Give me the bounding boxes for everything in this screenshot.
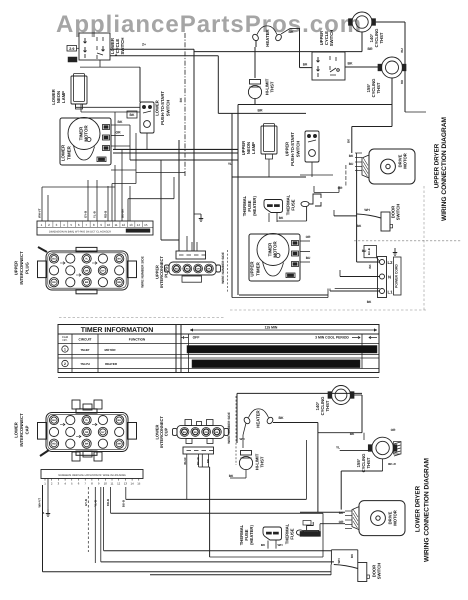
svg-text:DOOR: DOOR xyxy=(371,565,376,578)
wire heater right to x299 xyxy=(290,28,300,30)
lower strip ticks xyxy=(44,479,46,481)
wire x232 long xyxy=(231,113,233,297)
cap extra tabs xyxy=(72,400,102,461)
wire upper neon stem xyxy=(268,159,270,177)
svg-text:CUP: CUP xyxy=(164,427,169,436)
upper timer contact wire 2 xyxy=(300,251,310,253)
bus y104 xyxy=(238,104,392,106)
svg-text:MOTOR: MOTOR xyxy=(104,348,116,352)
svg-text:LOWER DRYER: LOWER DRYER xyxy=(415,485,422,532)
svg-text:UPPER DRYER: UPPER DRYER xyxy=(434,143,441,188)
ground arrow at power block xyxy=(393,248,398,255)
svg-text:RD: RD xyxy=(194,431,198,434)
cam1 black bar xyxy=(187,346,377,354)
svg-text:14: 14 xyxy=(137,223,141,227)
svg-text:RD: RD xyxy=(206,459,210,463)
upper power terminal block xyxy=(378,257,387,298)
svg-text:SWITCH: SWITCH xyxy=(120,38,125,55)
wire x299 down xyxy=(299,28,301,68)
svg-text:WIRE NUMBER SIDE: WIRE NUMBER SIDE xyxy=(221,252,225,284)
wire timer bottom contact xyxy=(111,169,136,171)
svg-text:TM-PU: TM-PU xyxy=(80,362,90,366)
z-wire drop to motor xyxy=(351,127,353,154)
svg-text:13: 13 xyxy=(129,223,133,227)
wire x318 down xyxy=(317,423,319,513)
wire x161 drop xyxy=(160,160,162,240)
wire timer contact 2 xyxy=(111,135,124,137)
tf leg 2 xyxy=(275,541,277,549)
lower push-to-start switch xyxy=(140,102,154,133)
cool period boundary xyxy=(361,334,363,369)
wire y192 xyxy=(314,191,339,193)
svg-text:BK: BK xyxy=(215,431,219,434)
off boundary vertical xyxy=(180,325,182,373)
svg-text:1: 1 xyxy=(64,348,66,352)
svg-text:(HEATER): (HEATER) xyxy=(252,196,257,216)
staircase wire 2b xyxy=(173,177,175,199)
svg-text:GY: GY xyxy=(101,269,105,272)
drop x125 xyxy=(125,487,127,499)
cam no 1 xyxy=(62,346,68,352)
staircase wire 1b tall xyxy=(135,133,137,184)
svg-text:BK: BK xyxy=(339,511,344,515)
svg-text:BK: BK xyxy=(278,416,284,420)
svg-text:BU-B: BU-B xyxy=(368,248,371,255)
svg-text:MOTOR: MOTOR xyxy=(403,153,408,169)
heater lower xyxy=(243,409,274,425)
ground near 4pin xyxy=(199,214,204,221)
svg-text:HEATER: HEATER xyxy=(105,362,118,366)
dashed drop x88 xyxy=(87,487,89,552)
dashed border right vertical xyxy=(423,186,425,310)
lower terminal strip xyxy=(41,470,143,479)
upper drive motor pin wires xyxy=(355,152,362,154)
svg-text:WIRE NUMBER SIDE: WIRE NUMBER SIDE xyxy=(141,256,145,288)
staircase wire 1c xyxy=(136,171,185,173)
staircase drop 2 xyxy=(127,199,129,221)
svg-text:THST: THST xyxy=(270,81,275,92)
svg-text:GY-B: GY-B xyxy=(84,211,88,218)
upper neon lamp xyxy=(261,124,277,160)
svg-text:TM-BT: TM-BT xyxy=(80,348,89,352)
thermal fuse heater lower xyxy=(263,527,282,540)
wire y49 to center xyxy=(110,48,194,50)
svg-text:FUSE: FUSE xyxy=(290,528,295,539)
svg-text:BU: BU xyxy=(400,48,404,52)
long vertical x356 xyxy=(356,168,358,262)
wire x362 down xyxy=(361,395,363,433)
dashed section border right xyxy=(230,309,428,311)
wire down into door switch xyxy=(357,550,359,563)
svg-text:WH: WH xyxy=(364,208,370,212)
wire tf link xyxy=(277,220,307,222)
svg-text:THST: THST xyxy=(379,32,384,43)
svg-text:BK: BK xyxy=(207,268,211,271)
cam no 2 xyxy=(62,360,68,366)
svg-text:TIMER: TIMER xyxy=(78,126,83,140)
svg-text:PUSH-TO-START: PUSH-TO-START xyxy=(160,91,165,125)
svg-text:OR: OR xyxy=(204,431,208,434)
svg-text:AppliancePartsPros.com: AppliancePartsPros.com xyxy=(56,11,362,38)
svg-text:WH-VT: WH-VT xyxy=(38,208,42,218)
wire y523 xyxy=(320,523,345,525)
svg-text:LOWER: LOWER xyxy=(14,422,19,438)
svg-text:UPPER: UPPER xyxy=(285,142,290,156)
wire y432 xyxy=(318,432,362,434)
svg-text:SWITCH: SWITCH xyxy=(295,141,300,158)
wire into 155 top xyxy=(363,433,365,440)
svg-text:SWITCH: SWITCH xyxy=(396,204,401,221)
bus x185 vertical dash-dot xyxy=(184,33,186,177)
svg-text:BU: BU xyxy=(306,256,311,260)
svg-text:115 MIN: 115 MIN xyxy=(265,326,278,330)
tf leg 1 xyxy=(268,213,270,222)
svg-text:BU: BU xyxy=(362,249,367,253)
strip dark block xyxy=(126,229,150,233)
svg-text:YL: YL xyxy=(228,162,232,166)
wire y56 to center xyxy=(110,55,218,57)
upper timer box xyxy=(249,234,300,282)
svg-text:11: 11 xyxy=(114,223,117,227)
line filter box xyxy=(364,246,377,258)
svg-text:BK: BK xyxy=(288,30,294,34)
dashed separator lower xyxy=(235,396,237,465)
svg-text:LAMP: LAMP xyxy=(61,91,66,103)
lower interconnect cap 4-pin xyxy=(173,425,229,438)
wire to door switch arm xyxy=(334,215,357,217)
bus y112 stub xyxy=(405,111,426,113)
thermal fuse lower element xyxy=(296,522,318,536)
diag wire to L2 xyxy=(377,258,380,261)
bus x194 vertical xyxy=(193,49,195,251)
z-wire down xyxy=(391,105,393,127)
svg-text:12: 12 xyxy=(117,482,121,486)
staircase wire 2a xyxy=(128,198,174,200)
terminal tag BR xyxy=(68,57,77,62)
svg-text:OR: OR xyxy=(196,268,200,271)
svg-text:13: 13 xyxy=(124,482,128,486)
z-wire left xyxy=(352,126,392,128)
svg-text:THST: THST xyxy=(366,457,371,468)
svg-text:THST: THST xyxy=(260,456,265,467)
wire y187 collector xyxy=(42,186,115,188)
upper push-to-start switch xyxy=(305,131,319,162)
push switch drop xyxy=(146,133,148,149)
wire y51 bus xyxy=(194,51,362,53)
wire x341 down to motor xyxy=(340,471,342,510)
svg-text:HEATER: HEATER xyxy=(256,409,261,427)
svg-text:INTERCONNECT: INTERCONNECT xyxy=(19,413,24,447)
wire y288 xyxy=(335,288,380,290)
heater upper xyxy=(251,26,282,42)
svg-text:BU: BU xyxy=(349,162,354,166)
upper 4-pin terminal row xyxy=(176,251,206,259)
lower drive motor xyxy=(352,501,405,536)
svg-text:N: N xyxy=(388,275,391,280)
svg-text:BR: BR xyxy=(303,63,308,67)
svg-text:L1: L1 xyxy=(388,290,394,295)
svg-text:WH: WH xyxy=(337,559,341,564)
115 min arrow line xyxy=(190,329,377,331)
svg-text:BU: BU xyxy=(175,268,179,271)
thermal fuse upper element xyxy=(301,194,321,221)
svg-text:11: 11 xyxy=(111,482,114,486)
fuse box bottom xyxy=(210,556,323,558)
svg-text:WH: WH xyxy=(240,437,245,441)
svg-text:HEATER: HEATER xyxy=(265,28,270,46)
wire push switch to y177 xyxy=(311,162,313,177)
bus y513 xyxy=(111,512,323,514)
svg-text:CAP: CAP xyxy=(24,425,29,434)
svg-text:BK-R: BK-R xyxy=(388,462,396,466)
wire heater left down xyxy=(243,423,246,435)
svg-text:RD-B: RD-B xyxy=(104,211,108,218)
svg-text:(HEATER): (HEATER) xyxy=(249,525,254,545)
timer information table xyxy=(58,325,379,378)
svg-text:LOWER: LOWER xyxy=(155,100,160,116)
terminal tag 2-9 xyxy=(67,46,77,52)
lower cycle switch box xyxy=(79,33,110,60)
svg-text:RD: RD xyxy=(52,443,56,446)
svg-text:BK: BK xyxy=(130,113,135,117)
wire x306 up xyxy=(305,440,307,499)
svg-text:INTERCONNECT: INTERCONNECT xyxy=(19,251,24,285)
wire into 4pin 3 xyxy=(191,242,193,251)
svg-text:DRIVE: DRIVE xyxy=(387,511,392,524)
wire into 155 left xyxy=(340,450,372,452)
svg-text:DOOR: DOOR xyxy=(390,206,395,219)
svg-text:BR: BR xyxy=(85,443,89,446)
wire 155thst down xyxy=(391,78,393,105)
svg-text:4: 4 xyxy=(115,53,117,57)
wire x161 bend xyxy=(161,239,179,241)
dark label block xyxy=(300,531,321,536)
wire y177 xyxy=(232,176,306,178)
svg-text:MOTOR: MOTOR xyxy=(273,241,278,258)
wire hi-limit down xyxy=(245,470,247,478)
wire y471 xyxy=(341,470,382,472)
lamp lead 2 xyxy=(81,111,140,113)
svg-text:BK: BK xyxy=(357,224,362,228)
4pin lower tabs xyxy=(185,420,213,444)
svg-text:BK: BK xyxy=(179,97,183,102)
svg-text:OFF: OFF xyxy=(193,336,200,340)
svg-text:BR: BR xyxy=(367,47,373,51)
wire 140thst right xyxy=(353,394,362,396)
wire y153 xyxy=(113,152,238,154)
wire into L2 xyxy=(357,261,380,263)
wire y149 thick xyxy=(113,148,238,150)
svg-text:OR: OR xyxy=(115,131,121,135)
stub under switch box xyxy=(99,60,101,67)
left long drop x42 xyxy=(42,485,44,572)
upper drive motor xyxy=(362,149,415,184)
svg-text:YL: YL xyxy=(336,446,340,450)
dashed section border left xyxy=(59,317,225,319)
wire into 4pin 4 xyxy=(196,242,198,251)
svg-text:BU-W: BU-W xyxy=(196,457,200,465)
svg-text:15: 15 xyxy=(144,223,148,227)
staircase wire 1a xyxy=(112,183,136,185)
140 cycling thermostat upper xyxy=(349,12,376,32)
lower tab of 4-pin xyxy=(182,276,202,282)
svg-text:LAMP: LAMP xyxy=(251,142,256,154)
svg-text:FUSE: FUSE xyxy=(291,199,296,210)
wire heater to hi-limit xyxy=(254,47,256,78)
wire y160 xyxy=(130,159,238,161)
wire into N xyxy=(340,276,380,278)
power cord box xyxy=(394,257,402,295)
svg-text:NUMBERS INDICATE LOCATION OF W: NUMBERS INDICATE LOCATION OF WIRE IN HOU… xyxy=(58,474,125,477)
svg-text:TIMER: TIMER xyxy=(267,242,272,256)
drop x95 xyxy=(94,487,96,563)
svg-text:BU: BU xyxy=(52,419,56,422)
left boundary upper-right section x238 xyxy=(237,105,239,296)
wires below lower 4pin xyxy=(186,454,188,499)
svg-text:THST: THST xyxy=(376,82,381,93)
svg-text:BU: BU xyxy=(183,431,187,434)
lower drive motor pin wires xyxy=(345,510,352,512)
svg-text:10: 10 xyxy=(104,482,108,486)
svg-text:GY-B: GY-B xyxy=(84,499,88,506)
bus y113 xyxy=(218,112,306,114)
lower top boundary xyxy=(237,392,362,394)
svg-text:TIMER: TIMER xyxy=(255,261,260,275)
bus y550 xyxy=(104,550,332,552)
wire into upper cycle switch xyxy=(300,67,313,69)
upper timer contact wire 1 xyxy=(300,240,310,242)
dash-dot wire xyxy=(345,165,347,186)
bus y575 xyxy=(150,574,331,576)
svg-text:OR: OR xyxy=(306,235,311,239)
svg-text:MOTOR: MOTOR xyxy=(393,510,398,526)
hi-limit thermostat upper xyxy=(248,80,261,99)
svg-text:DRIVE: DRIVE xyxy=(397,154,402,167)
svg-text:SWITCH: SWITCH xyxy=(329,30,334,47)
svg-text:POWER CORD: POWER CORD xyxy=(395,264,399,288)
svg-text:GY: GY xyxy=(101,431,105,434)
wire timer contact 3 xyxy=(111,145,130,147)
lamp lead 1 xyxy=(76,106,141,108)
svg-text:BU: BU xyxy=(52,258,56,261)
svg-text:BK: BK xyxy=(349,154,354,158)
svg-text:10: 10 xyxy=(107,223,111,227)
140 cycling thermostat lower xyxy=(328,386,354,405)
lower left boundary x237 xyxy=(236,393,238,443)
svg-text:YL: YL xyxy=(85,258,89,261)
svg-text:BK: BK xyxy=(367,300,372,304)
svg-text:YL-B: YL-B xyxy=(93,211,97,218)
wire heater right diag xyxy=(281,29,290,35)
svg-text:WH: WH xyxy=(278,543,283,547)
wire into lower push switch top xyxy=(139,67,141,102)
wire switch to 155thst xyxy=(345,66,381,68)
wire into L1 xyxy=(330,290,380,292)
svg-text:THST: THST xyxy=(325,400,330,411)
bus x218 vertical xyxy=(217,56,219,114)
upper terminal strip xyxy=(37,221,153,235)
lower timer box xyxy=(60,118,111,166)
svg-text:12: 12 xyxy=(122,223,126,227)
bus y499 xyxy=(126,498,307,500)
lamp lead 2 drop xyxy=(80,104,82,112)
wire y67 xyxy=(80,66,140,68)
drop w/ ground xyxy=(47,479,49,510)
svg-text:BU-BK: BU-BK xyxy=(121,208,125,218)
wire heater left loop down xyxy=(255,40,257,47)
upper interconnect plug big xyxy=(38,247,137,293)
bus into motor xyxy=(300,511,345,513)
wire y297 xyxy=(232,297,328,299)
svg-text:2-9: 2-9 xyxy=(69,47,74,51)
wire motor pin down xyxy=(356,153,358,168)
vertical x323 xyxy=(322,513,324,557)
lower neon lamp xyxy=(71,74,87,110)
drop x100 xyxy=(100,487,102,562)
svg-text:OR: OR xyxy=(85,431,89,434)
wires dropping into upper strip xyxy=(41,187,43,221)
lamp lead 1 drop xyxy=(75,104,77,107)
svg-text:PLUG: PLUG xyxy=(24,262,29,274)
drop x103 xyxy=(103,487,105,551)
wire x405 right side xyxy=(404,22,406,112)
cam2 black bar xyxy=(192,360,360,368)
upper interconnect plug 4-pin xyxy=(165,262,221,275)
svg-text:UPPER: UPPER xyxy=(250,261,255,277)
wire y295 below upper timer xyxy=(239,294,328,296)
tag by push switch xyxy=(127,111,137,118)
svg-text:WIRING CONNECTION DIAGRAM: WIRING CONNECTION DIAGRAM xyxy=(441,116,448,221)
svg-text:PUSH-TO-START: PUSH-TO-START xyxy=(290,132,295,166)
svg-text:OR: OR xyxy=(391,428,396,432)
svg-text:WH-VT: WH-VT xyxy=(38,498,42,508)
lower interconnect cap big xyxy=(38,409,137,455)
svg-text:TIMER INFORMATION: TIMER INFORMATION xyxy=(81,327,154,334)
bus y571 xyxy=(43,571,332,573)
tf lower top tag xyxy=(303,521,311,526)
svg-text:RD: RD xyxy=(52,281,56,284)
svg-text:TIMER: TIMER xyxy=(66,145,71,159)
svg-text:YL-B: YL-B xyxy=(94,500,98,507)
wire x130 drop xyxy=(129,125,131,160)
wire 155 bottom xyxy=(382,459,384,471)
svg-text:BK: BK xyxy=(117,419,121,422)
wire heater right xyxy=(273,422,318,424)
door switch upper xyxy=(357,212,393,231)
thermal fuse heater upper xyxy=(264,200,283,213)
tf leg 2 xyxy=(276,213,278,222)
svg-text:LOWER: LOWER xyxy=(61,144,66,161)
ground branch xyxy=(194,213,201,215)
svg-text:RD: RD xyxy=(186,268,190,271)
svg-text:14: 14 xyxy=(131,482,135,486)
svg-text:L2: L2 xyxy=(388,260,394,265)
collector xyxy=(199,466,210,468)
wire over door switch xyxy=(331,549,357,551)
wire 140thst bottom drop xyxy=(361,32,363,52)
tf leg 1 xyxy=(267,541,269,549)
svg-text:MOTOR: MOTOR xyxy=(84,125,89,142)
svg-text:FUNCTION: FUNCTION xyxy=(129,338,146,342)
svg-text:UPPER: UPPER xyxy=(14,261,19,275)
vertical x209 xyxy=(209,467,211,557)
upper timer contact wire 3 xyxy=(300,261,310,263)
svg-text:BU-R: BU-R xyxy=(183,458,187,465)
svg-text:DIMENSION IN [MM], WT-PKG 3/4: DIMENSION IN [MM], WT-PKG 3/4 DCT CL ACK… xyxy=(49,231,111,234)
svg-text:SWITCH: SWITCH xyxy=(165,100,170,117)
svg-text:BK: BK xyxy=(279,216,284,220)
dashed power section border xyxy=(354,240,462,242)
